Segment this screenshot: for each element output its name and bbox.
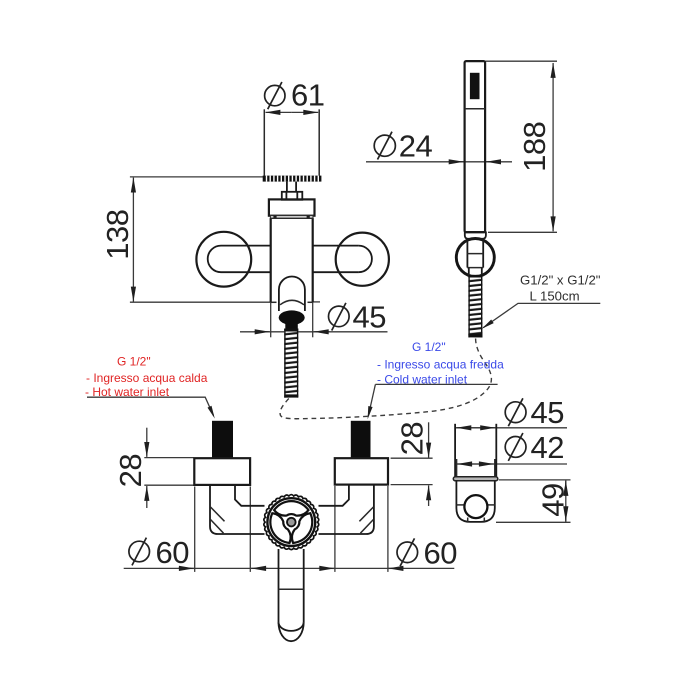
svg-text:42: 42	[531, 430, 564, 465]
svg-text:- Hot water inlet: - Hot water inlet	[85, 385, 170, 399]
svg-text:G1/2" x G1/2": G1/2" x G1/2"	[520, 273, 601, 288]
svg-text:G 1/2": G 1/2"	[117, 355, 151, 369]
svg-text:28: 28	[395, 422, 430, 455]
svg-text:61: 61	[291, 78, 324, 113]
svg-text:L 150cm: L 150cm	[530, 289, 580, 304]
svg-text:28: 28	[113, 454, 148, 487]
svg-text:188: 188	[517, 122, 552, 172]
svg-text:- Ingresso acqua fredda: - Ingresso acqua fredda	[377, 358, 504, 372]
svg-text:49: 49	[536, 483, 571, 516]
svg-text:138: 138	[100, 209, 135, 259]
svg-text:60: 60	[424, 536, 458, 571]
svg-text:24: 24	[399, 129, 433, 164]
svg-text:- Ingresso acqua calda: - Ingresso acqua calda	[86, 371, 208, 385]
svg-text:G 1/2": G 1/2"	[412, 340, 446, 354]
svg-text:45: 45	[353, 300, 386, 335]
svg-text:45: 45	[531, 395, 564, 430]
svg-text:60: 60	[156, 535, 190, 570]
svg-text:- Cold water inlet: - Cold water inlet	[377, 372, 468, 386]
